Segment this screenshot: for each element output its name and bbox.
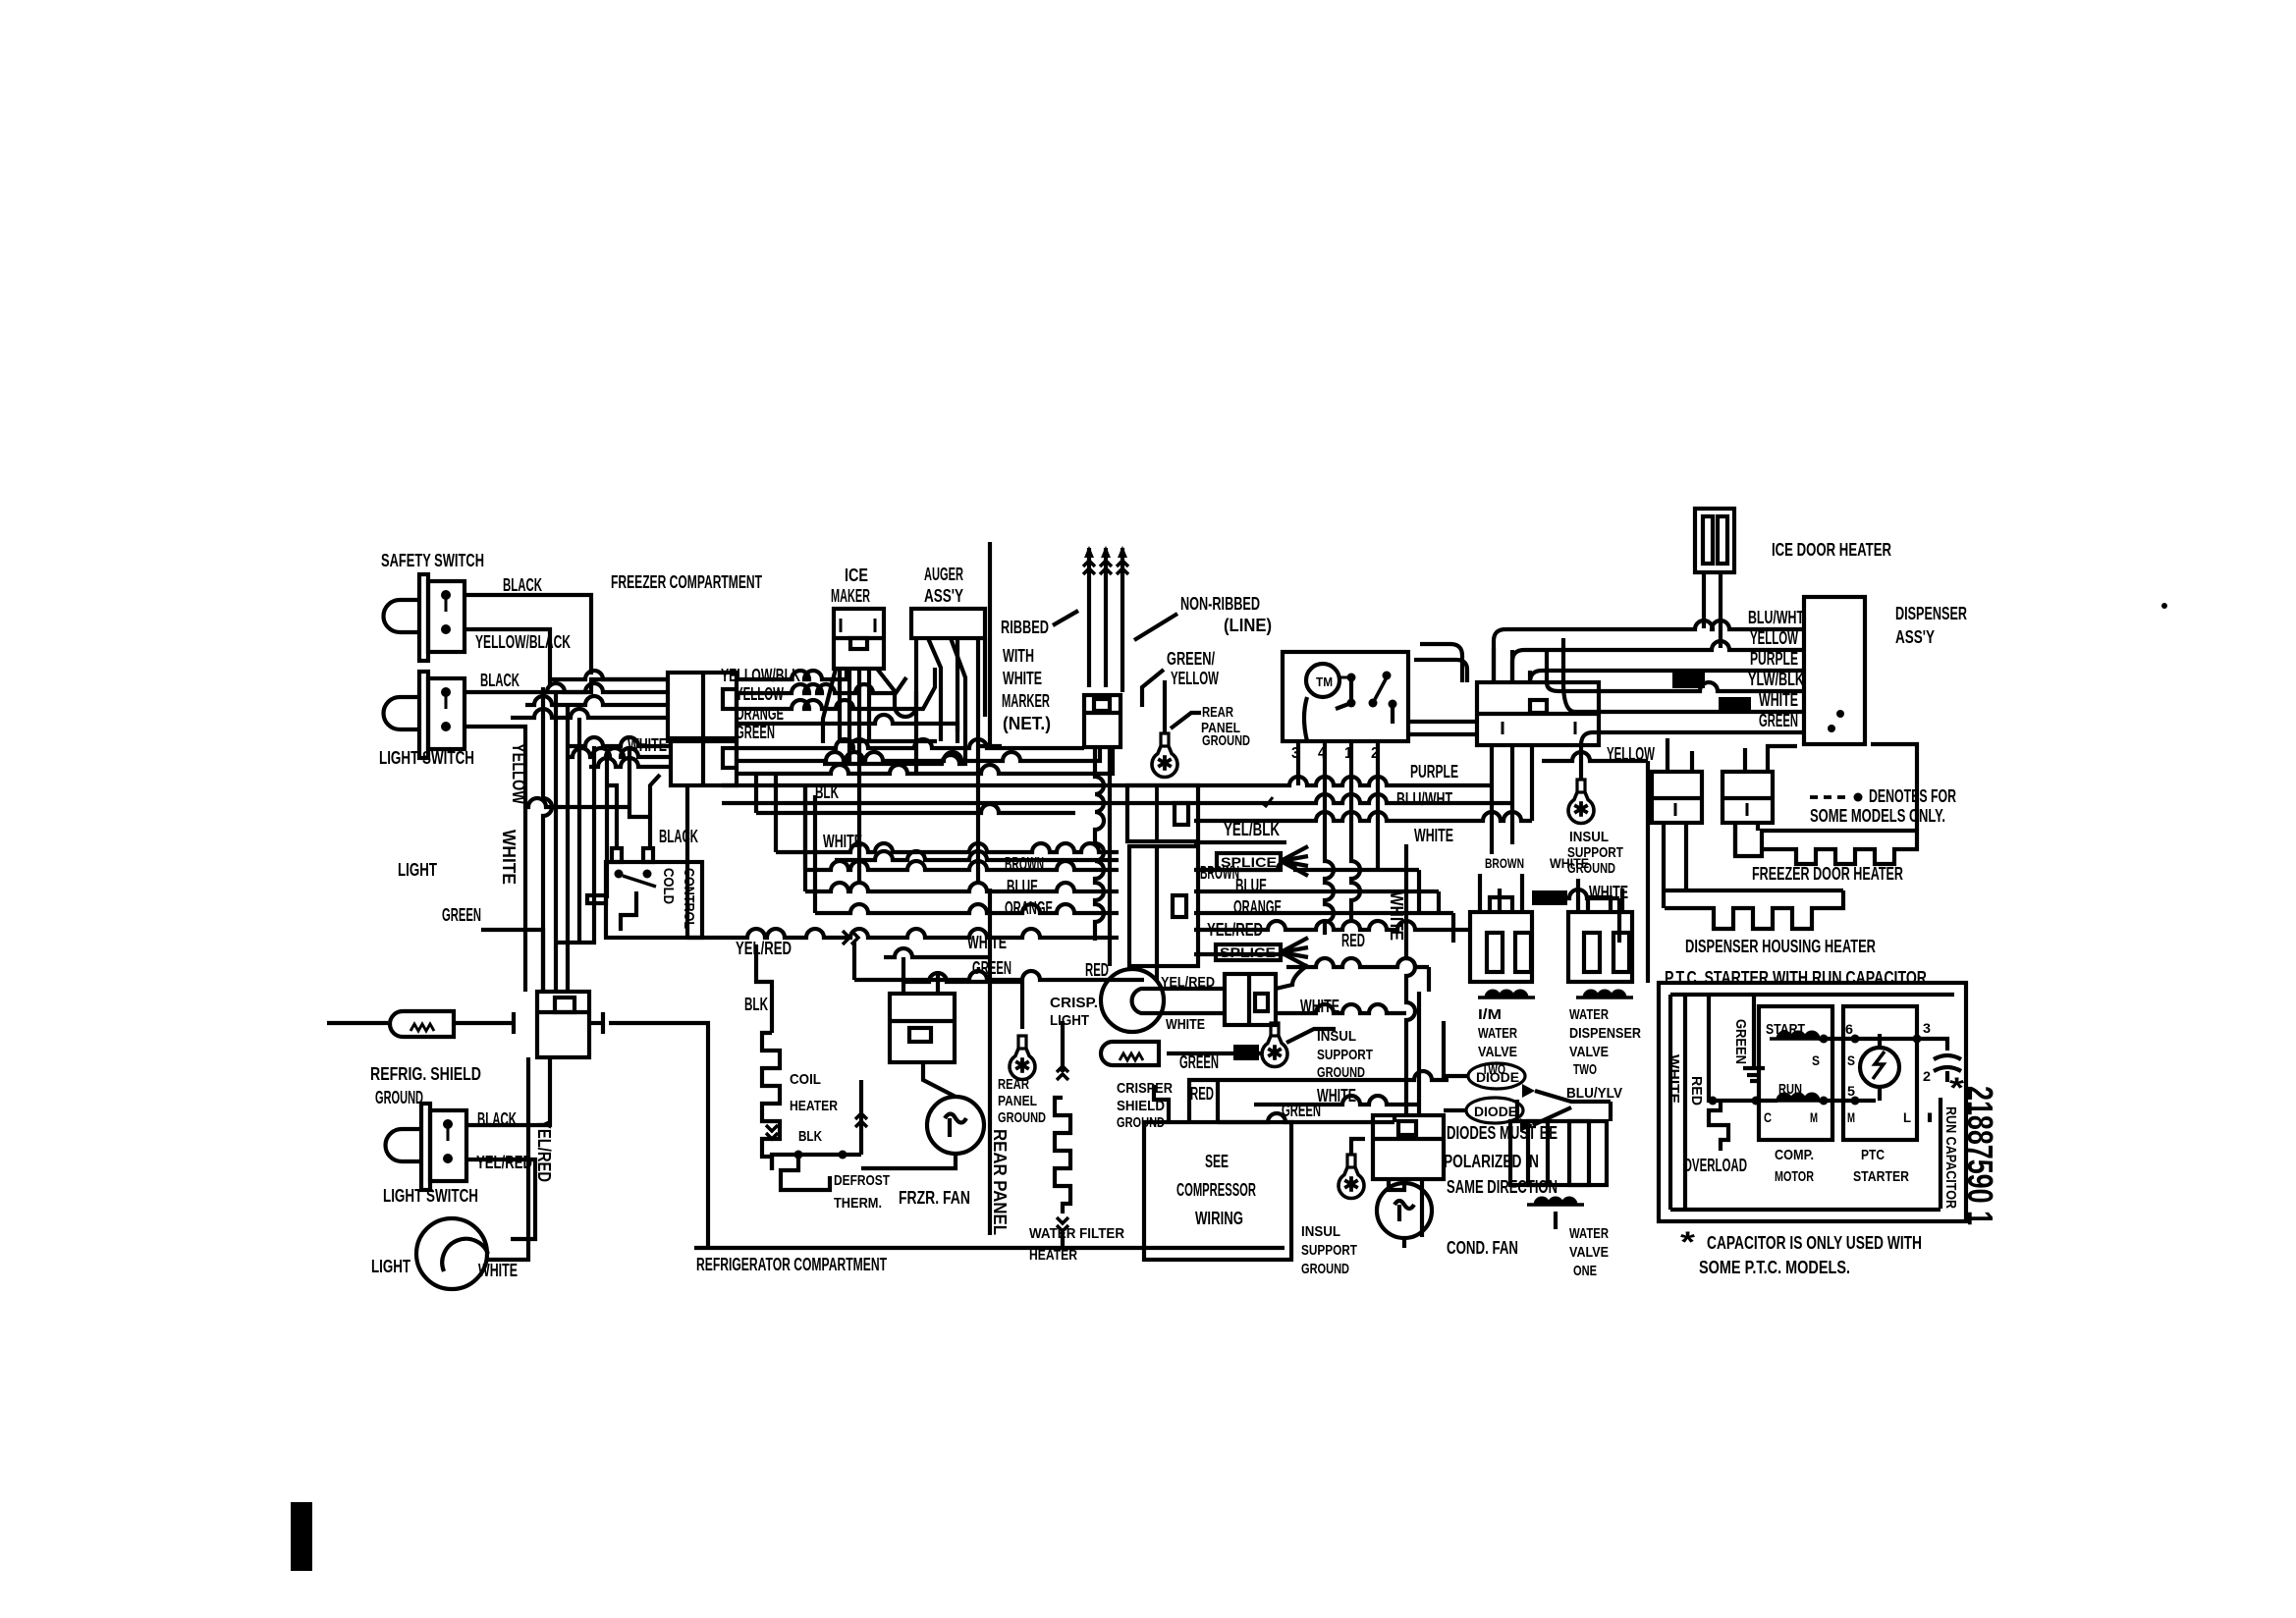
comp motor label — [1775, 1147, 1814, 1185]
safety switch label — [381, 551, 484, 570]
c6 wires down — [1735, 823, 1758, 856]
svg-text:CAPACITOR IS ONLY USED WITH: CAPACITOR IS ONLY USED WITH — [1707, 1233, 1922, 1253]
wire bundle vertical 618 — [605, 757, 609, 898]
wire RED c — [1189, 1071, 1449, 1122]
svg-text:GROUND: GROUND — [1317, 1064, 1365, 1081]
wire GREEN c label — [1282, 1101, 1321, 1120]
light bulb — [416, 1218, 488, 1289]
I label — [1926, 1109, 1934, 1125]
wire WHITE c — [1254, 1096, 1419, 1115]
C label — [1764, 1109, 1772, 1125]
denotes dashed — [1810, 793, 1863, 802]
svg-text:M: M — [1810, 1109, 1818, 1125]
svg-text:BLU/YLV: BLU/YLV — [1566, 1085, 1622, 1102]
svg-text:21887590 1: 21887590 1 — [1960, 1086, 2000, 1225]
run coil — [1770, 1094, 1827, 1101]
wire GREEN fz label — [972, 958, 1011, 978]
svg-text:M: M — [1847, 1109, 1855, 1125]
svg-text:WHITE: WHITE — [1414, 826, 1453, 845]
svg-text:DIODES MUST BE: DIODES MUST BE — [1447, 1123, 1558, 1143]
ice door heater connector — [1695, 509, 1734, 572]
svg-text:5: 5 — [1847, 1083, 1855, 1099]
svg-text:DEFROST: DEFROST — [834, 1172, 890, 1189]
wire C1 r1 — [737, 669, 847, 679]
dispenser housing heater label — [1685, 937, 1876, 956]
YELLOW label r — [1607, 744, 1655, 764]
svg-text:RED: RED — [1341, 931, 1365, 950]
svg-text:SPLICE: SPLICE — [1220, 944, 1276, 960]
svg-text:AUGER: AUGER — [924, 565, 963, 584]
asterisk1 — [1949, 1072, 1964, 1105]
ptc wires — [1819, 1035, 1947, 1106]
wire BLK c label — [744, 995, 768, 1014]
svg-text:WATER: WATER — [1478, 1025, 1517, 1042]
svg-text:PANEL: PANEL — [998, 1093, 1037, 1109]
svg-text:GREEN: GREEN — [442, 905, 481, 925]
cond fan wires — [1389, 1179, 1422, 1248]
diode D2 — [1466, 1098, 1523, 1123]
svg-text:YELLOW: YELLOW — [1171, 669, 1219, 688]
ribbed callout line — [1053, 611, 1078, 625]
wire ORANGE — [815, 795, 1453, 943]
svg-text:YEL/RED: YEL/RED — [736, 939, 792, 958]
svg-text:WITH: WITH — [1003, 646, 1034, 666]
S label2 — [1847, 1052, 1855, 1068]
wire left horiz 692 — [550, 671, 668, 679]
svg-text:YEL/RED: YEL/RED — [476, 1153, 532, 1172]
splice SP1 fan — [1281, 846, 1308, 876]
svg-text:WHITE: WHITE — [478, 1261, 518, 1280]
wire WHITE r — [1194, 745, 1532, 821]
wire C2 r3 — [737, 747, 1113, 774]
refrig shield ground label2 — [375, 1088, 423, 1107]
wire BROWN — [805, 785, 1419, 912]
wire WHITE c3 label — [1300, 997, 1339, 1016]
wire left horiz 760 — [568, 737, 671, 746]
svg-text:S: S — [1812, 1052, 1820, 1068]
wire RED ptc — [1688, 1076, 1705, 1106]
rear panel ground stem wire — [1163, 680, 1167, 732]
cond fan connector — [1373, 1115, 1444, 1179]
green/yellow label — [1167, 649, 1219, 688]
valve VB2 — [1568, 897, 1632, 982]
connector C6 — [1722, 772, 1773, 823]
svg-text:TWO: TWO — [1573, 1061, 1597, 1078]
svg-text:WATER: WATER — [1569, 1225, 1609, 1242]
wire C2 r2 — [737, 747, 1100, 761]
connector C2 — [671, 738, 737, 785]
svg-text:COMPRESSOR: COMPRESSOR — [1176, 1180, 1256, 1200]
cob splice — [1233, 1045, 1259, 1060]
svg-text:BLACK: BLACK — [480, 671, 519, 690]
svg-text:TM: TM — [1316, 674, 1333, 689]
freezer door heater riser — [1871, 744, 1917, 831]
svg-text:BLU/WHT: BLU/WHT — [1748, 608, 1804, 627]
wire label GREEN2 — [736, 723, 775, 742]
valve VB1 label — [1478, 1006, 1517, 1078]
part number — [1960, 1086, 2000, 1225]
svg-text:OVERLOAD: OVERLOAD — [1683, 1156, 1747, 1175]
ice door heater wires — [1704, 572, 1721, 648]
c5 wires down — [1664, 823, 1686, 908]
start label — [1766, 1021, 1805, 1038]
svg-text:BLU/WHT: BLU/WHT — [1396, 789, 1452, 809]
svg-text:PTC: PTC — [1861, 1147, 1885, 1163]
ptc outer box — [1659, 983, 1966, 1221]
svg-text:ICE: ICE — [845, 566, 868, 585]
svg-text:GROUND: GROUND — [1117, 1114, 1165, 1131]
wire BLU/WHT r label — [1748, 608, 1804, 627]
wire white vert 1445 — [1417, 992, 1421, 1105]
svg-text:WHITE: WHITE — [967, 933, 1007, 952]
wire valve connects — [1492, 785, 1512, 854]
junction box JB — [1129, 846, 1198, 966]
wire RED label r — [1341, 931, 1365, 950]
denotes label — [1810, 786, 1956, 826]
wire YLW/BLK r label — [1748, 670, 1804, 689]
overload zigzag — [1709, 1101, 1728, 1151]
wire bundle vertical 566 — [554, 692, 558, 992]
refrigerator compartment line — [694, 1246, 1285, 1250]
S3 wire BLACK — [466, 1057, 550, 1125]
wire WHITE c2 label — [1166, 1016, 1205, 1033]
wire BLU/WHT label — [1396, 789, 1452, 809]
crisp wires — [1169, 965, 1406, 1013]
svg-text:RUN CAPACITOR: RUN CAPACITOR — [1942, 1106, 1959, 1209]
svg-text:CRISP.: CRISP. — [1050, 995, 1098, 1011]
diodes note — [1444, 1123, 1558, 1197]
svg-text:COMP.: COMP. — [1775, 1147, 1814, 1163]
coil heater — [762, 1033, 780, 1170]
svg-text:HEATER: HEATER — [790, 1098, 838, 1114]
wire WHITE vr label — [1550, 855, 1589, 871]
rear panel ground label top — [1201, 704, 1250, 749]
wire label YELLOW/BLK — [721, 666, 800, 685]
svg-text:RIBBED: RIBBED — [1001, 618, 1049, 637]
rear panel ground2 stem — [1020, 1011, 1024, 1029]
valve VB2 coils — [1576, 991, 1633, 998]
crisp connector — [1225, 974, 1276, 1025]
splice SPR3 — [1532, 890, 1567, 905]
ice door heater label — [1772, 540, 1891, 560]
power cord arrows — [1083, 546, 1128, 574]
svg-text:SUPPORT: SUPPORT — [1317, 1047, 1373, 1063]
L label — [1903, 1109, 1911, 1125]
power cord wires — [1089, 548, 1122, 692]
run capacitor label — [1942, 1106, 1959, 1209]
svg-text:YELLOW: YELLOW — [509, 743, 528, 804]
splice SP2 — [1216, 944, 1281, 960]
svg-text:DIODE: DIODE — [1476, 1069, 1519, 1085]
dispenser assy label — [1895, 604, 1967, 647]
svg-text:(LINE): (LINE) — [1224, 616, 1272, 635]
non-ribbed label — [1180, 594, 1272, 635]
svg-text:REAR: REAR — [1202, 704, 1233, 721]
svg-text:INSUL: INSUL — [1569, 829, 1609, 845]
wire YEL/RED c label — [1161, 974, 1215, 991]
svg-text:NON-RIBBED: NON-RIBBED — [1180, 594, 1260, 614]
svg-text:RED: RED — [1085, 960, 1109, 980]
svg-text:REAR PANEL: REAR PANEL — [990, 1129, 1010, 1235]
light label bottom — [371, 1257, 410, 1276]
insul support ground 3 sym — [1339, 1155, 1364, 1198]
see compressor box — [1144, 1122, 1291, 1260]
wire WHITE label vertical — [499, 830, 519, 885]
wire YEL/RED arrows — [843, 931, 858, 944]
wire YEL/RED mid — [687, 785, 1119, 938]
pin3 — [1923, 1020, 1931, 1036]
timer pin wires — [1298, 741, 1378, 935]
wire PURPLE — [722, 745, 1492, 785]
wire GREEN r label — [1759, 711, 1798, 730]
svg-text:CRISPER: CRISPER — [1117, 1080, 1173, 1097]
svg-text:RED: RED — [1190, 1084, 1214, 1104]
svg-text:STARTER: STARTER — [1853, 1168, 1909, 1185]
diode arrows — [1520, 1084, 1535, 1132]
splice SP2 fan — [1281, 938, 1308, 967]
wire bundle vertical 590 — [577, 718, 581, 943]
ptc green wire — [1752, 997, 1756, 1068]
svg-text:SHIELD: SHIELD — [1117, 1098, 1165, 1114]
cold control BLACK label — [659, 827, 698, 846]
svg-text:YEL/RED: YEL/RED — [534, 1119, 554, 1182]
wire RED — [854, 943, 1144, 980]
run capacitor sym — [1934, 1055, 1961, 1082]
defrost return wire — [855, 1080, 867, 1155]
wire left horiz 731 — [511, 709, 668, 718]
wire label YELLOW2 — [736, 684, 784, 704]
valve VB2 label — [1569, 1006, 1641, 1078]
wire GREEN cr label — [1179, 1052, 1219, 1072]
insul support ground r sym — [1568, 780, 1594, 823]
wire BLUE — [805, 785, 1439, 912]
wire S2 lower contact — [465, 727, 525, 992]
water filter arrows — [1057, 1021, 1068, 1248]
light switch S3 — [386, 1104, 466, 1190]
wire GREEN — [481, 930, 543, 992]
svg-text:VALVE: VALVE — [1569, 1244, 1609, 1261]
wire bundle vertical 605 — [556, 746, 594, 943]
svg-text:WATER: WATER — [1569, 1006, 1609, 1023]
timer pin labels — [1291, 745, 1379, 762]
cold control — [587, 848, 702, 938]
wire BROWN vr label — [1485, 855, 1524, 871]
svg-text:6: 6 — [1845, 1021, 1853, 1037]
insul ground3 wire — [1351, 1139, 1365, 1156]
svg-text:BLACK: BLACK — [659, 827, 698, 846]
svg-text:ASS'Y: ASS'Y — [1895, 627, 1935, 647]
cond fan label — [1447, 1238, 1518, 1258]
ice maker connector — [834, 609, 884, 669]
wire left horiz 705 — [543, 683, 668, 692]
svg-text:MARKER: MARKER — [1002, 691, 1050, 711]
ice auger horiz 778 — [823, 755, 965, 764]
timer to RB wires — [1408, 722, 1477, 734]
wire YELLOW/BLACK label — [475, 632, 571, 652]
svg-text:PURPLE: PURPLE — [1410, 762, 1458, 782]
svg-text:LIGHT: LIGHT — [1050, 1012, 1089, 1029]
frzr fan circle — [927, 1097, 984, 1154]
wire RED c label — [1190, 1084, 1214, 1104]
cond fan circle — [1377, 1183, 1432, 1238]
diode D1 — [1468, 1063, 1525, 1089]
ptc circle — [1860, 1034, 1899, 1101]
svg-text:BROWN: BROWN — [1485, 855, 1524, 871]
auger wires down — [916, 638, 985, 884]
ptc white wire — [1683, 997, 1687, 1209]
wire WHITE vert label — [1387, 891, 1406, 941]
wire BLACK from S2 — [465, 679, 668, 692]
dispenser assy box — [1804, 597, 1865, 744]
svg-text:SUPPORT: SUPPORT — [1301, 1242, 1357, 1259]
valve VB3 coils — [1527, 1198, 1584, 1205]
svg-text:SOME MODELS ONLY.: SOME MODELS ONLY. — [1810, 806, 1945, 826]
svg-text:I/M: I/M — [1478, 1006, 1502, 1023]
freezer compartment label — [611, 572, 762, 592]
svg-text:THERM.: THERM. — [834, 1195, 882, 1212]
svg-text:REFRIG. SHIELD: REFRIG. SHIELD — [370, 1064, 481, 1084]
svg-text:C: C — [1764, 1109, 1772, 1125]
wire GREEN ptc — [1732, 1019, 1749, 1064]
splice SPR2 — [1719, 697, 1751, 713]
svg-text:HEATER: HEATER — [1029, 1247, 1077, 1264]
svg-text:LIGHT: LIGHT — [371, 1257, 410, 1276]
ptc bottom wires — [1709, 1090, 1778, 1106]
run label — [1778, 1081, 1802, 1098]
svg-text:I: I — [1926, 1109, 1934, 1125]
wire YEL/BLK — [1194, 840, 1286, 844]
svg-text:LIGHT SWITCH: LIGHT SWITCH — [383, 1186, 478, 1206]
wire left vert 641 — [629, 746, 650, 817]
wire PURPLE r label — [1750, 649, 1798, 669]
svg-text:SPLICE: SPLICE — [1221, 854, 1277, 870]
wire WHITE label mid — [823, 832, 862, 851]
valve VB3 — [1510, 1121, 1607, 1185]
wire C1 r4 — [737, 715, 957, 743]
svg-text:WHITE: WHITE — [1003, 669, 1042, 688]
svg-text:DENOTES FOR: DENOTES FOR — [1869, 786, 1956, 806]
svg-text:GROUND: GROUND — [1202, 732, 1250, 749]
wire BROWN label r — [1200, 863, 1239, 883]
wire WHITE vert — [1406, 844, 1415, 1115]
wire C1 r2 — [737, 677, 906, 693]
wire CC left terminal up — [607, 785, 617, 848]
see compressor label — [1176, 1152, 1256, 1228]
wire YELLOW r — [1542, 752, 1648, 983]
svg-text:COLD: COLD — [660, 868, 677, 904]
freezer door heater label — [1752, 864, 1903, 884]
rear panel line — [988, 889, 992, 1235]
svg-text:REAR: REAR — [998, 1076, 1029, 1093]
pin6 — [1845, 1021, 1853, 1037]
wire BLACK S1 label — [503, 575, 542, 595]
M label2 — [1847, 1109, 1855, 1125]
coil heater arrow — [766, 1125, 778, 1139]
svg-text:GROUND: GROUND — [375, 1088, 423, 1107]
check mark — [1261, 797, 1273, 806]
svg-text:LIGHT: LIGHT — [398, 860, 437, 880]
dispenser wires — [1414, 620, 1804, 745]
crisper shield label — [1117, 1080, 1173, 1131]
valve VB1 — [1470, 897, 1532, 982]
refrigerator compartment label — [696, 1255, 887, 1274]
refrig shield ground connector — [390, 1011, 454, 1037]
svg-text:YELLOW/BLK: YELLOW/BLK — [721, 666, 800, 685]
svg-text:POLARIZED IN: POLARIZED IN — [1444, 1152, 1539, 1171]
power cord connector — [1084, 695, 1121, 747]
compressor box wires — [1154, 1078, 1218, 1122]
svg-text:BLK: BLK — [744, 995, 768, 1014]
rear panel ground2 sym — [1010, 1036, 1035, 1079]
wire WHITE mid — [776, 774, 1119, 852]
rear panel ground callout — [1171, 713, 1201, 728]
light switch label — [379, 748, 474, 768]
wire horiz 972 — [1194, 952, 1286, 956]
svg-text:MAKER: MAKER — [831, 586, 870, 606]
rear panel ground2 label — [998, 1076, 1046, 1126]
power cord bottom wires — [1095, 747, 1110, 966]
wire BLACK from S1 — [465, 595, 591, 674]
coil heater top wire — [756, 944, 772, 1033]
ptc title — [1665, 968, 1927, 988]
wire green fz — [903, 973, 1022, 1011]
svg-text:RED: RED — [1688, 1076, 1705, 1106]
c5 top wires — [1667, 738, 1692, 772]
splice SPR1 — [1672, 673, 1705, 688]
svg-text:2: 2 — [1923, 1068, 1931, 1084]
S3 wire YEL/RED — [466, 1160, 535, 1230]
wire GREEN c — [1218, 1113, 1394, 1122]
coil heater label — [790, 1071, 838, 1114]
dispenser housing heater — [1665, 890, 1843, 929]
ptc starter label — [1853, 1147, 1909, 1185]
svg-text:(NET.): (NET.) — [1003, 714, 1051, 733]
rear panel label — [990, 1129, 1010, 1235]
junction J1 right wire — [589, 1012, 708, 1248]
wire WHITE ptc — [1666, 1054, 1682, 1104]
M label1 — [1810, 1109, 1818, 1125]
svg-text:LIGHT SWITCH: LIGHT SWITCH — [379, 748, 474, 768]
overload label — [1683, 1156, 1747, 1175]
auger assy label — [924, 565, 963, 606]
junction connector J1 — [537, 992, 589, 1057]
svg-text:REFRIGERATOR COMPARTMENT: REFRIGERATOR COMPARTMENT — [696, 1255, 887, 1274]
wire WHITE c label — [1317, 1086, 1356, 1106]
wire long right 1 — [1194, 921, 1470, 930]
wire C2 r1 — [737, 739, 1084, 748]
ice maker wires down — [823, 669, 916, 884]
defrost therm label — [834, 1172, 890, 1212]
wire WHITE r label — [1759, 690, 1798, 710]
RB top wires — [1494, 638, 1563, 682]
diode wires — [1444, 1021, 1611, 1125]
splice SP1 — [1217, 853, 1281, 870]
svg-text:INSUL: INSUL — [1301, 1223, 1340, 1240]
wire yellow vertical — [543, 687, 552, 992]
svg-text:ASS'Y: ASS'Y — [924, 586, 963, 606]
wire YELLOW label vertical — [509, 743, 528, 804]
svg-text:WHITE: WHITE — [1166, 1016, 1205, 1033]
svg-text:VALVE: VALVE — [1478, 1044, 1517, 1060]
water filter heater label — [1029, 1225, 1124, 1264]
svg-text:VALVE: VALVE — [1569, 1044, 1609, 1060]
valve VB1 coils — [1478, 991, 1535, 998]
S3 wire YEL/RED vert label — [534, 1119, 554, 1182]
svg-text:SEE: SEE — [1205, 1152, 1229, 1171]
svg-text:GROUND: GROUND — [1301, 1261, 1349, 1277]
wire WHITE fz label — [967, 933, 1007, 952]
wire RED label — [1085, 960, 1109, 980]
